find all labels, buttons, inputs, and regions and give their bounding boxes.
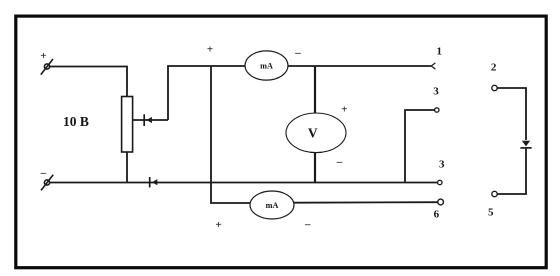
svg-text:+: + — [216, 219, 222, 231]
terminal 6 circle — [438, 199, 444, 205]
svg-text:6: 6 — [434, 209, 440, 221]
wire from T+ to potentiometer top — [50, 67, 128, 97]
voltmeter PV1 (V) — [286, 113, 346, 153]
svg-text:mA: mA — [260, 62, 273, 71]
ammeter PA1 (mA) — [245, 51, 288, 80]
wire from terminal 2 to diode VD2 — [497, 88, 526, 140]
terminal 3 lower circle — [438, 180, 442, 184]
svg-text:5: 5 — [488, 207, 494, 219]
svg-text:–: – — [336, 156, 343, 168]
diode VD2 (arrow down onto cathode bar) — [522, 141, 530, 147]
diode VD1 on bottom rail (cathode bar + left arrow) — [149, 177, 151, 187]
top rail wire from PA1 to terminal 1 — [288, 65, 431, 67]
svg-text:3: 3 — [433, 86, 439, 98]
wire from diode VD2 to terminal 5 — [497, 148, 526, 194]
svg-text:+: + — [341, 104, 347, 116]
terminal 1 open-arrow tip — [431, 63, 435, 69]
wire wiper riser up to top rail — [168, 66, 245, 120]
svg-text:2: 2 — [491, 62, 497, 74]
wire from voltmeter bottom to bottom rail — [314, 152, 316, 182]
ammeter PA2 (mA) — [250, 191, 294, 219]
terminal T- (left minus terminal, circle with slash) — [41, 175, 53, 191]
svg-text:–: – — [40, 167, 47, 179]
terminal 3 upper circle — [435, 108, 439, 112]
svg-text:–: – — [304, 219, 311, 231]
terminal T+ (left plus terminal, circle with slash) — [41, 59, 53, 75]
potentiometer wiper arm with arrow and contact bar — [133, 114, 168, 126]
svg-text:+: + — [40, 50, 46, 62]
terminal 2 circle — [492, 85, 497, 90]
terminal 5 circle — [492, 191, 497, 196]
svg-text:+: + — [207, 44, 213, 56]
bottom rail wire from T- to terminal 3 (lower) — [50, 182, 438, 184]
svg-text:V: V — [308, 125, 318, 140]
svg-text:10 В: 10 В — [63, 114, 89, 129]
wire riser from terminal 3 (upper) down to bottom rail — [405, 110, 435, 183]
wire riser from top rail to voltmeter PV1 — [314, 66, 316, 114]
potentiometer R1 body — [122, 97, 133, 153]
wire from PA2 to terminal 6 — [294, 201, 438, 204]
svg-text:mA: mA — [266, 201, 279, 210]
riser wire from top rail down to ammeter PA2 branch — [211, 66, 250, 203]
svg-text:–: – — [294, 47, 301, 59]
svg-text:3: 3 — [439, 159, 445, 171]
svg-text:1: 1 — [437, 46, 443, 58]
wire from potentiometer bottom to bottom rail — [126, 152, 128, 183]
